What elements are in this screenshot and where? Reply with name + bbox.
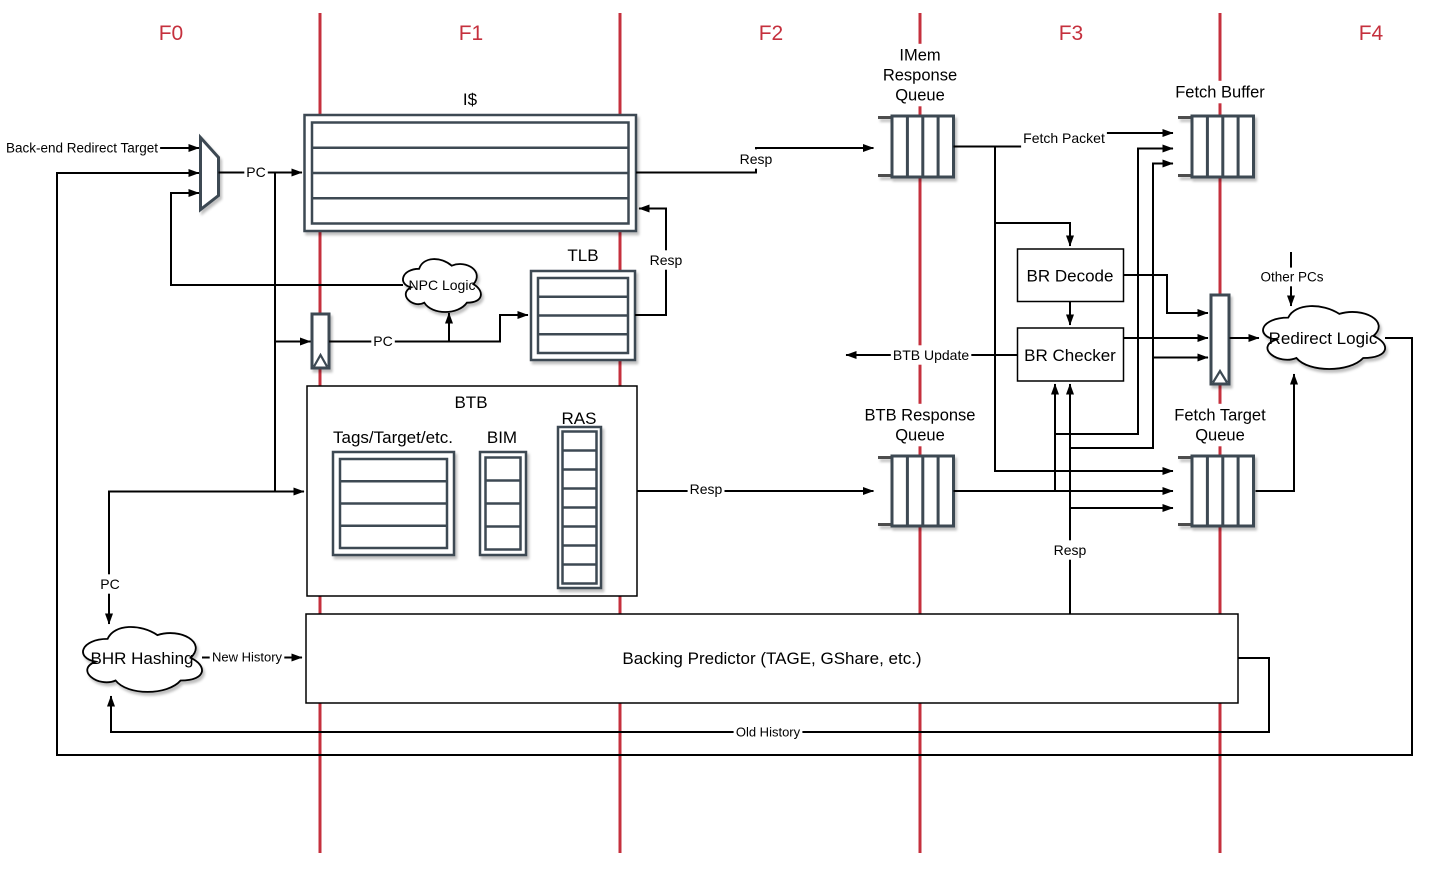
svg-text:BR Checker: BR Checker	[1024, 346, 1116, 365]
svg-text:BIM: BIM	[487, 428, 517, 447]
svg-text:NPC Logic: NPC Logic	[409, 277, 476, 293]
svg-text:F4: F4	[1359, 22, 1384, 45]
svg-text:Tags/Target/etc.: Tags/Target/etc.	[333, 428, 453, 447]
svg-text:Fetch Packet: Fetch Packet	[1023, 130, 1105, 146]
svg-text:Other PCs: Other PCs	[1260, 270, 1323, 285]
svg-text:Response: Response	[883, 67, 957, 85]
svg-text:Back-end Redirect Target: Back-end Redirect Target	[6, 141, 158, 156]
svg-text:PC: PC	[373, 333, 392, 349]
svg-text:Fetch Buffer: Fetch Buffer	[1175, 84, 1265, 102]
svg-text:Backing Predictor (TAGE, GShar: Backing Predictor (TAGE, GShare, etc.)	[622, 649, 921, 668]
svg-text:Queue: Queue	[895, 87, 945, 105]
svg-text:BHR Hashing: BHR Hashing	[91, 649, 194, 668]
svg-text:TLB: TLB	[567, 246, 598, 265]
svg-text:BTB Update: BTB Update	[893, 347, 969, 363]
svg-text:F0: F0	[159, 22, 184, 45]
svg-text:Old History: Old History	[736, 725, 801, 740]
svg-text:F1: F1	[459, 22, 484, 45]
svg-text:Resp: Resp	[1054, 542, 1087, 558]
svg-text:BR Decode: BR Decode	[1027, 266, 1114, 285]
svg-text:Resp: Resp	[650, 252, 683, 268]
svg-text:I$: I$	[463, 90, 478, 109]
svg-text:Resp: Resp	[690, 481, 723, 497]
svg-text:F3: F3	[1059, 22, 1084, 45]
svg-text:PC: PC	[100, 576, 119, 592]
svg-text:IMem: IMem	[899, 47, 940, 65]
svg-text:Queue: Queue	[1195, 427, 1245, 445]
svg-text:BTB Response: BTB Response	[865, 407, 976, 425]
svg-text:Resp: Resp	[740, 151, 773, 167]
svg-text:Redirect Logic: Redirect Logic	[1269, 329, 1378, 348]
svg-text:New History: New History	[212, 650, 283, 665]
svg-text:F2: F2	[759, 22, 784, 45]
svg-text:Fetch Target: Fetch Target	[1174, 407, 1266, 425]
svg-text:PC: PC	[246, 164, 265, 180]
svg-text:Queue: Queue	[895, 427, 945, 445]
svg-text:RAS: RAS	[562, 409, 597, 428]
svg-text:BTB: BTB	[454, 393, 487, 412]
